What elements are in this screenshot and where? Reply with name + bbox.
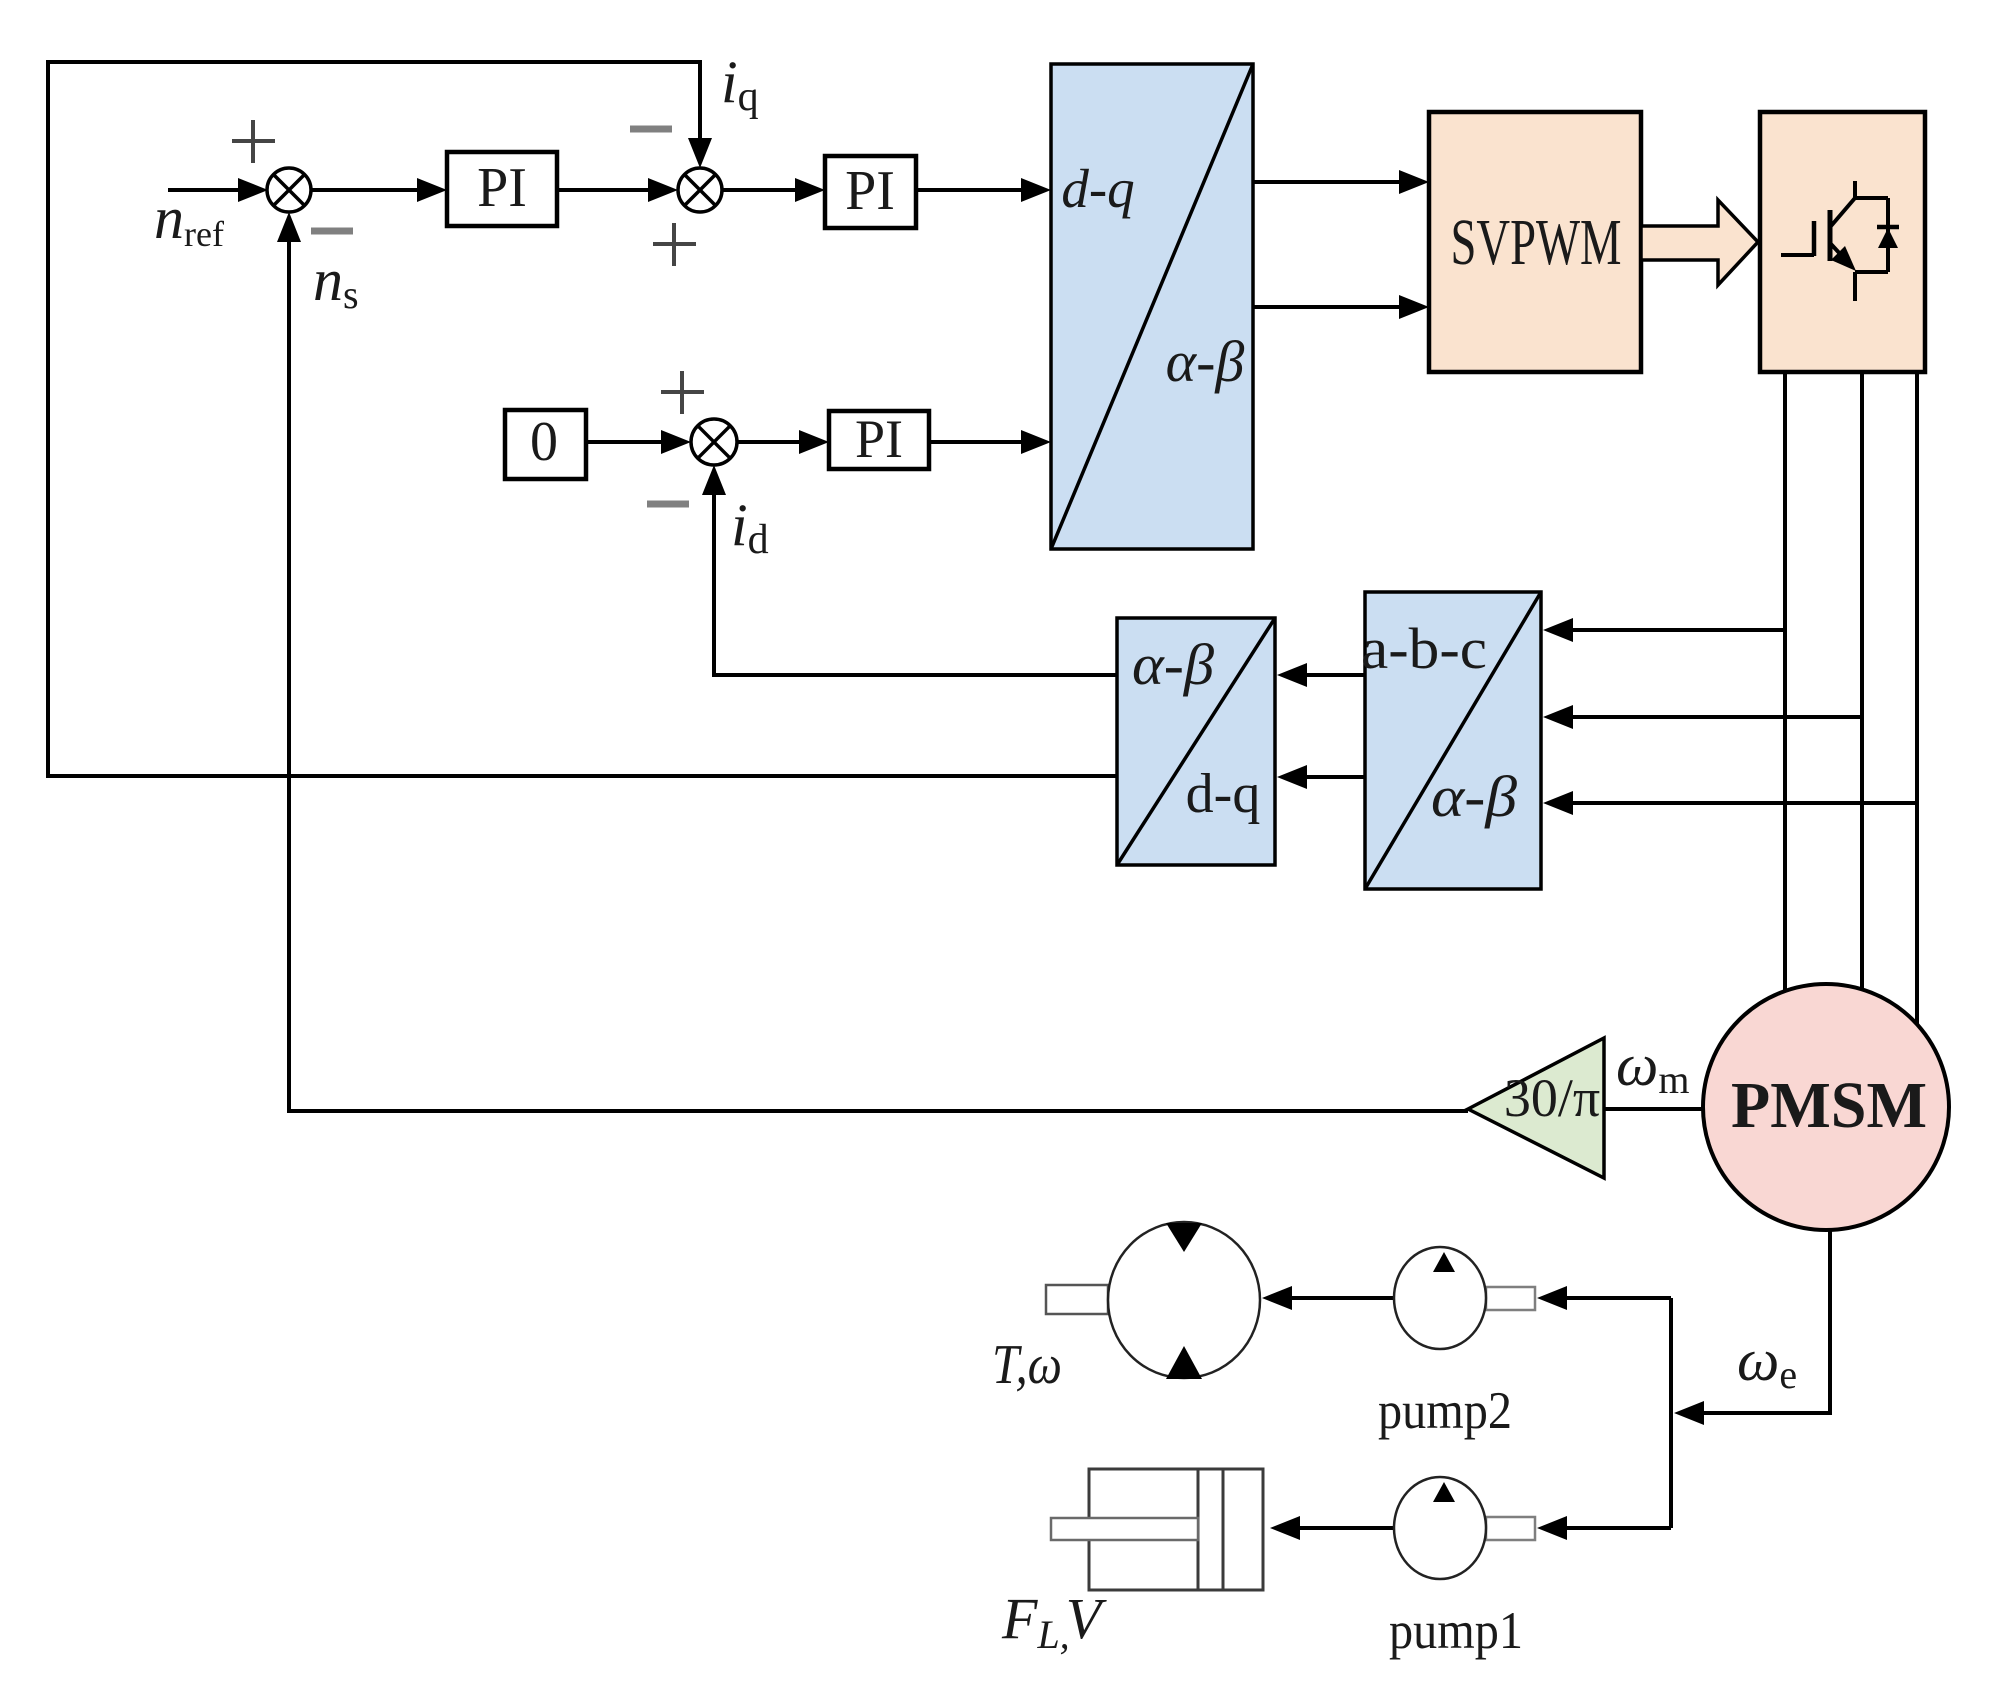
wire: current a into a-b-c block <box>1570 628 1785 632</box>
svg-text:pump2: pump2 <box>1378 1382 1512 1440</box>
svg-text:id: id <box>731 492 769 563</box>
IGBT symbol inside inverter <box>1781 181 1888 301</box>
svg-text:iq: iq <box>721 49 759 120</box>
pump2 <box>1394 1247 1535 1349</box>
svg-text:nref: nref <box>154 185 224 254</box>
wire: pump1 to cylinder <box>1296 1526 1394 1530</box>
PMSM motor circle <box>1703 984 1949 1230</box>
svg-text:pump1: pump1 <box>1389 1602 1523 1660</box>
wire: summer2 to PI2 <box>722 188 799 192</box>
plus sign at summer 3 <box>661 371 704 414</box>
svg-text:ns: ns <box>313 247 359 317</box>
pump1 <box>1394 1477 1535 1579</box>
wire: to pump2 <box>1563 1296 1671 1300</box>
svg-text:PMSM: PMSM <box>1731 1069 1927 1142</box>
svg-text:PI: PI <box>845 160 895 222</box>
minus sign at summer 2 <box>630 126 672 133</box>
svg-text:PI: PI <box>855 409 903 469</box>
wire: PMSM to 30/pi triangle (omega_m) <box>1604 1107 1703 1111</box>
block a-b-c / alpha-beta Clarke transform <box>1361 592 1541 889</box>
svg-text:ωm: ωm <box>1616 1032 1690 1102</box>
block d-q / alpha-beta inverse Park transform <box>1051 64 1253 549</box>
svg-text:ωe: ωe <box>1737 1327 1797 1397</box>
block alpha-beta / d-q Park transform <box>1117 618 1275 865</box>
wire: a-b-c to alpha-beta/d-q lower <box>1305 775 1365 779</box>
block SVPWM <box>1429 112 1641 372</box>
block PI1 (speed PI) <box>447 152 557 226</box>
block arrow SVPWM to inverter <box>1641 200 1758 285</box>
wire: a-b-c to alpha-beta/d-q upper <box>1305 673 1365 677</box>
hydraulic motor (T,omega) <box>1046 1222 1260 1379</box>
wire: d-q block to SVPWM lower <box>1253 305 1403 309</box>
block inverter <box>1760 112 1925 372</box>
svg-text:PI: PI <box>477 157 527 219</box>
IGBT freewheeling diode <box>1877 225 1899 230</box>
svg-text:d-q: d-q <box>1061 158 1134 219</box>
svg-text:T,ω: T,ω <box>992 1334 1062 1396</box>
wire: phase A vertical from inverter <box>1783 372 1787 992</box>
wire: omega_e from PMSM down and left <box>1700 1230 1830 1413</box>
block 0 (d current reference) <box>505 410 586 479</box>
block PI3 (d axis PI) <box>829 409 929 469</box>
wire: current b into a-b-c block <box>1570 715 1862 719</box>
plus sign at summer 1 <box>232 120 275 163</box>
svg-text:a-b-c: a-b-c <box>1361 616 1487 681</box>
svg-text:0: 0 <box>530 411 558 473</box>
gain triangle 30/pi <box>1468 1038 1604 1178</box>
svg-text:α-β: α-β <box>1431 764 1517 829</box>
wire: phase C vertical from inverter <box>1915 372 1919 1191</box>
svg-text:α-β: α-β <box>1166 329 1245 394</box>
svg-text:α-β: α-β <box>1132 632 1214 697</box>
wire: pump feed vertical <box>1669 1298 1673 1528</box>
wire: 0 block to summer3 <box>587 440 665 444</box>
wire: i_d feedback (block left to summer 3) <box>714 493 1117 675</box>
wire: summer1 to PI1 <box>311 188 421 192</box>
wire: phase B vertical from inverter <box>1860 372 1864 991</box>
wire: pump2 to hydraulic motor <box>1288 1296 1394 1300</box>
plus sign at summer 2 <box>653 223 696 266</box>
wire: PI1 to summer2 <box>558 188 652 192</box>
svg-text:d-q: d-q <box>1186 763 1261 825</box>
wire: PI3 to d-q block <box>929 440 1025 444</box>
svg-text:SVPWM: SVPWM <box>1451 206 1622 279</box>
minus sign at summer 1 <box>311 228 353 235</box>
wire: current c into a-b-c block <box>1570 801 1917 805</box>
hydraulic cylinder (F_L,V) <box>1051 1469 1263 1590</box>
wire: summer3 to PI3 <box>737 440 803 444</box>
svg-text:30/π: 30/π <box>1504 1068 1600 1128</box>
summer 2 (q current loop) <box>678 168 722 212</box>
wire: PI2 to d-q block <box>916 188 1025 192</box>
wire: to pump1 <box>1563 1526 1671 1530</box>
wire: n_ref input <box>168 188 242 192</box>
block PI2 (q axis PI) <box>825 156 916 228</box>
svg-text:FL,V: FL,V <box>1001 1586 1108 1657</box>
wire: i_q feedback loop (block to top, into summer 2) <box>48 62 1117 776</box>
minus sign at summer 3 <box>647 501 689 508</box>
summer 3 (d current loop) <box>691 419 737 465</box>
wire: d-q block to SVPWM upper <box>1253 180 1403 184</box>
summer 1 (speed loop) <box>267 168 311 212</box>
wire: n_s feedback (30/pi triangle to summer 1) <box>289 240 1468 1111</box>
